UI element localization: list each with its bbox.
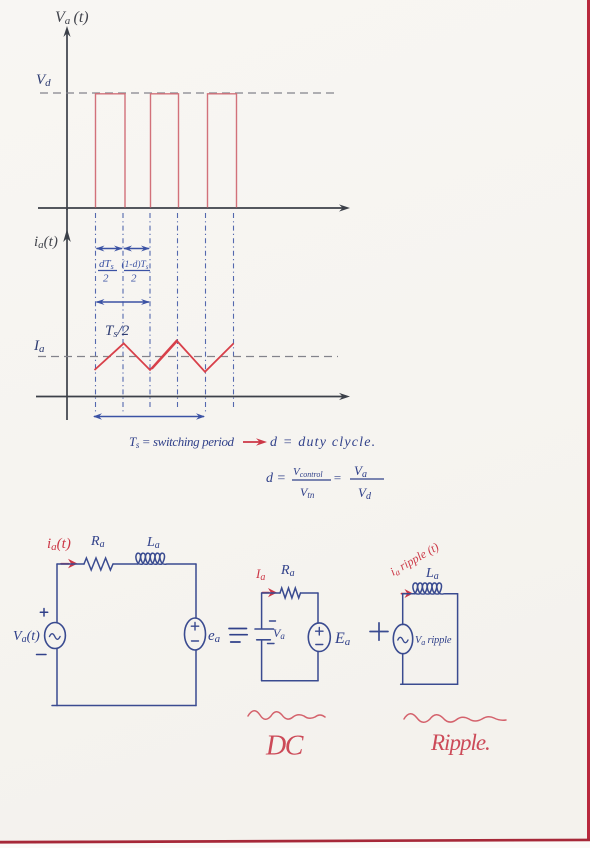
wire right side down [195,564,197,618]
time x-axis (current plot) [36,396,345,398]
ripple current waveform [95,341,234,372]
wire top-left [57,563,84,565]
sliver of next page below bottom edge [0,841,590,848]
svg-text:2: 2 [131,273,137,285]
Ts/2 interval arrow [96,299,151,305]
wire top-left [262,592,280,594]
wire right down [317,593,319,623]
battery Va top plate [255,628,274,630]
bottom wire [52,705,196,707]
Ia dashed level line [38,356,338,358]
current arrow [402,589,414,598]
svg-text:=: = [333,470,342,485]
svg-text:Va (t): Va (t) [55,9,89,27]
Va pulse 3 [208,94,237,208]
plus between circuits [370,623,388,640]
wire top-left stub [403,593,415,595]
+ polarity [40,609,47,617]
dash-dot guide at x=95.5 [95,213,97,412]
current y-axis [66,209,68,420]
inductor La [136,553,167,564]
CIRCUIT2 [248,563,351,762]
wire top-right [445,593,458,595]
wire right down [457,594,459,684]
current arrow ia(t) [61,559,78,569]
source ea [185,618,206,650]
equivalence sign [229,629,247,643]
TEXTS [129,434,384,502]
wire right-bottom [195,650,197,706]
current arrow Ia [263,588,278,597]
wire left-top [402,594,404,625]
wire left-bottom [261,640,263,681]
voltage y-axis [66,31,68,210]
dash-dot guide at x=177.5 [177,213,179,410]
bottom wire [262,680,318,682]
wire left-bottom [56,649,58,706]
PLOT2 [33,209,350,420]
Va pulse 1 [96,94,126,208]
wire left-top [56,564,58,623]
battery Va bottom plate [257,639,271,641]
source Ea [308,623,330,652]
dash-dot guide at x=150 [149,213,151,410]
svg-text:2: 2 [103,273,109,285]
dTs/2 interval arrow [96,246,124,252]
Vd dashed level line [40,92,338,94]
wire left-top [261,593,263,629]
svg-text:d =: d = [266,471,286,486]
source Va ripple [393,624,412,653]
svg-text:ia(t): ia(t) [47,536,71,553]
Ripple underline squiggle [404,714,506,723]
Ts period arrow (below axis) [93,413,205,419]
wire top-right [301,592,319,594]
dash-dot guide at x=205.5 [205,213,207,412]
svg-text:Ripple.: Ripple. [430,730,490,755]
extra ink on rising segment [152,342,177,370]
CIRCUIT1 [13,534,247,706]
minus below [268,643,275,645]
source Va(t) [45,623,66,649]
DC underline squiggle [248,711,325,720]
CIRCUIT3 [370,540,506,755]
minus above [270,620,276,622]
page edge line (right) [587,0,590,848]
resistor Ra [280,588,300,598]
PLOT1 [36,9,350,212]
svg-text:Ts = switching period: Ts = switching period [129,434,235,450]
Va pulse 2 [151,94,179,208]
dash-dot guide at x=233.5 [233,213,235,410]
dTs/2 fraction label [98,258,117,285]
page edge line (bottom) [0,839,590,844]
(1-d)Ts/2 interval arrow [123,246,150,252]
svg-text:DC: DC [265,731,304,762]
svg-text:Va(t): Va(t) [13,629,40,645]
dash-dot guide at x=123 [122,213,124,414]
wire left-bottom [402,654,404,685]
svg-text:d = duty clycle.: d = duty clycle. [270,435,376,450]
svg-text:Ts/2: Ts/2 [105,323,130,340]
resistor Ra [84,558,113,570]
duty ratio formula [266,463,384,502]
wire between R and L [113,563,138,565]
(1-d)Ts/2 fraction label [122,259,151,285]
inductor La [413,583,444,594]
time x-axis (top plot) [38,207,345,209]
bottom wire [401,683,458,685]
wire right-bottom [317,652,319,681]
red arrow in text [243,438,267,446]
svg-text:Va ripple: Va ripple [415,635,452,647]
wire top-right [168,563,197,565]
− polarity [37,654,47,656]
svg-text:(1-d)Ts: (1-d)Ts [122,259,149,271]
svg-text:ia(t): ia(t) [34,234,58,251]
